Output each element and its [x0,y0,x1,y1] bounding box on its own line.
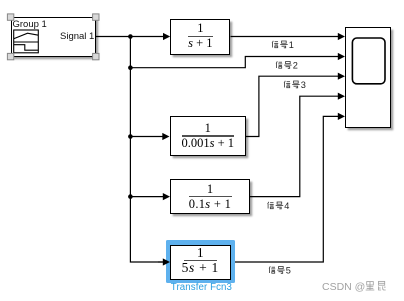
svg-text:CSDN @: CSDN @ [322,281,365,293]
